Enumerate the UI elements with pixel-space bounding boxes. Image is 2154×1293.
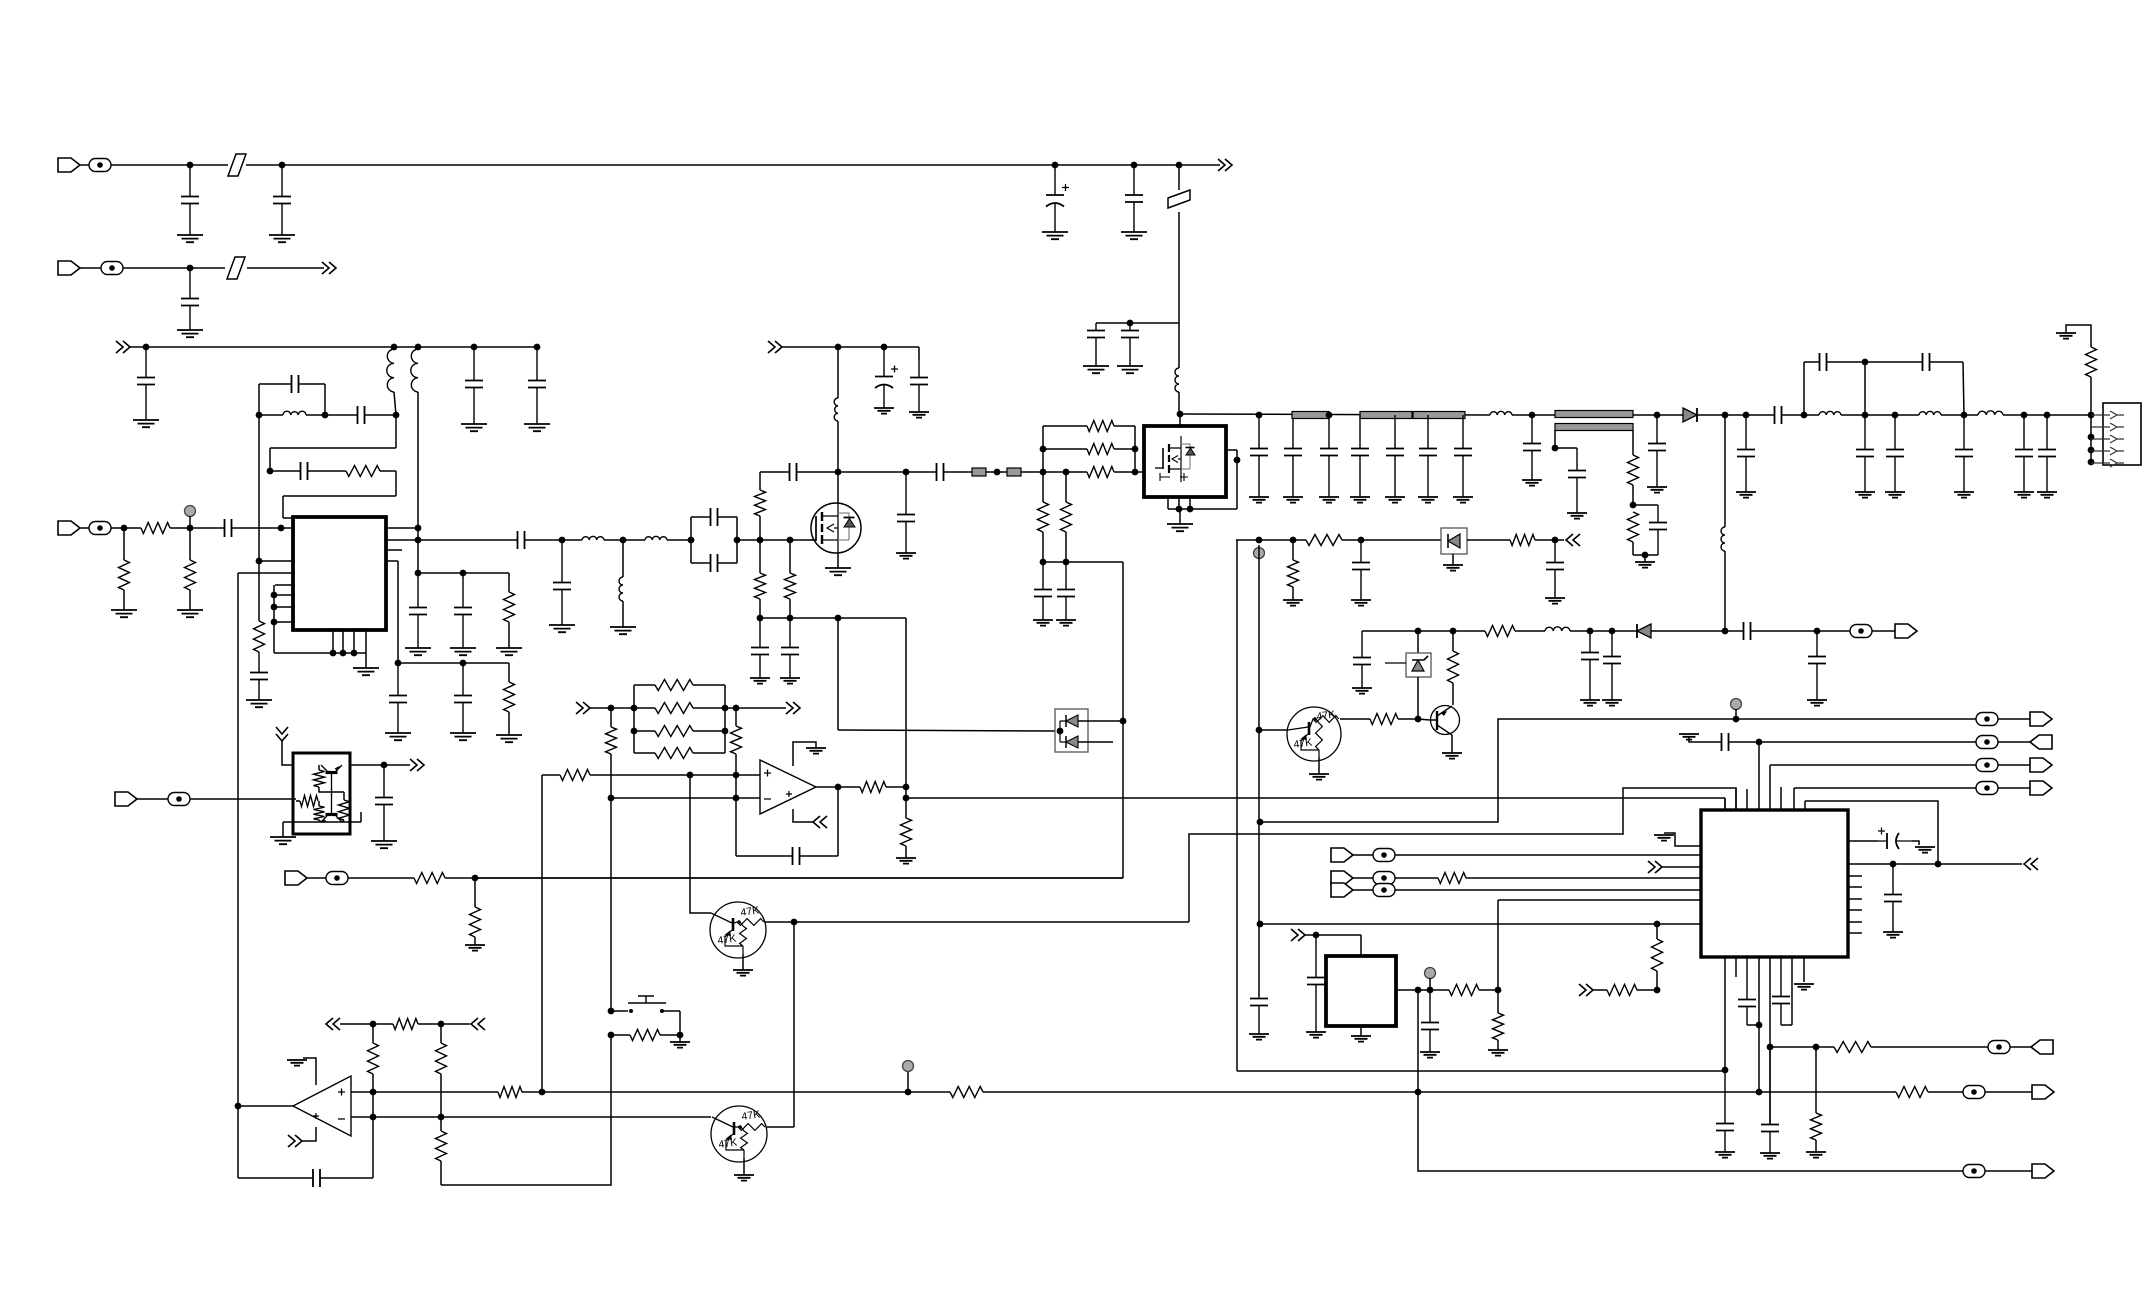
wire r45b: [1497, 1040, 1499, 1050]
node nr5: [1722, 412, 1729, 419]
ground G9: [461, 424, 487, 431]
wire pb gnd lead: [679, 1035, 681, 1042]
wire fb2 v2: [282, 496, 284, 518]
wire u3 t1: [1724, 798, 1726, 810]
ground GC36: [1319, 497, 1339, 503]
wire v4 stem: [907, 1072, 909, 1092]
node n3a: [121, 525, 128, 532]
ground G10: [524, 424, 550, 431]
wire r35b: [474, 937, 476, 945]
wire br1 l: [1803, 362, 1805, 415]
wire bridge right rail: [324, 384, 326, 415]
chevron arrow A16l: [2024, 858, 2038, 870]
resistor R53: [314, 806, 325, 820]
node nx2: [1290, 537, 1297, 544]
transistor Q6 (digital, 47K): [711, 1106, 767, 1162]
wire tp15w: [1998, 787, 2030, 789]
wire bus878: [445, 877, 1123, 879]
wire u3 b4: [1758, 957, 1760, 1092]
wire bridge left rail: [258, 384, 260, 415]
node ni5: [1495, 987, 1502, 994]
wire ladder line: [590, 707, 655, 709]
wire q5 gnd: [742, 954, 744, 970]
node ni3: [1415, 987, 1422, 994]
ground G83: [371, 841, 397, 848]
net tie TP13: [1976, 736, 1998, 749]
wire J2 wire: [123, 267, 225, 269]
wire lineB: [1260, 719, 1976, 822]
wire l7b: [622, 601, 624, 627]
ground GC40: [1453, 497, 1473, 503]
wire r16b: [1632, 485, 1634, 505]
wire r13r: [1114, 448, 1135, 450]
net tie TP6: [1963, 1086, 1985, 1099]
wire div bus: [760, 617, 906, 619]
ground G5: [177, 330, 203, 337]
capacitor C55: [1353, 658, 1371, 665]
wire J8c link: [1353, 889, 1373, 891]
wire rc par bot3: [1633, 554, 1658, 556]
wire y775: [542, 774, 560, 776]
net tie TP3: [89, 522, 111, 535]
wire bus347b: [782, 346, 919, 348]
node ny1: [1415, 628, 1422, 635]
ground G13: [177, 610, 203, 617]
node nb1071: [1722, 1067, 1729, 1074]
wire r6t: [508, 573, 510, 592]
node n1a: [187, 162, 194, 169]
wire J5 link: [307, 877, 326, 879]
node n1047b: [1813, 1044, 1820, 1051]
capacitor C23: [711, 554, 718, 572]
capacitor C57: [1581, 653, 1599, 660]
wire y775b: [590, 774, 760, 776]
chevron arrow A8r: [786, 702, 800, 714]
ground G59: [1602, 700, 1622, 706]
wire pin540r: [386, 539, 418, 541]
resistor R46: [1607, 985, 1637, 996]
wire v5 stem: [1429, 978, 1431, 990]
ground G6: [1083, 366, 1109, 373]
wire r30t: [735, 708, 737, 726]
node nt3: [1040, 559, 1047, 566]
capacitor C62: [1307, 978, 1325, 985]
node nl5: [631, 728, 638, 735]
wire r20t: [1292, 540, 1294, 560]
wire in4 wire: [190, 798, 296, 800]
capacitor C49: [2015, 450, 2033, 457]
ferrite bead FB2: [1168, 190, 1190, 208]
resistor R45: [1493, 1013, 1504, 1040]
ground G14: [353, 668, 379, 675]
node np4: [370, 1114, 377, 1121]
wire u2 gnd lead: [1179, 509, 1181, 524]
node n878: [472, 875, 479, 882]
wire u3 r841: [1848, 840, 1878, 842]
wire r28r: [693, 752, 725, 754]
wire zen stub: [1385, 662, 1406, 664]
wire J3 wireb: [170, 527, 219, 529]
wire x1418 low: [1418, 990, 1963, 1171]
net tie TP15: [1976, 782, 1998, 795]
ground G11: [246, 700, 272, 707]
ground G17: [496, 648, 522, 655]
wire t1s l: [1554, 430, 1556, 448]
resistor R21: [1510, 535, 1535, 546]
resistor R18: [2086, 347, 2097, 377]
resistor R16: [1628, 455, 1639, 485]
ground G26: [874, 408, 894, 414]
ground G4: [1121, 232, 1147, 239]
capacitor C43: [1568, 471, 1586, 478]
wire row2 out: [247, 267, 324, 269]
wire fbox t1: [691, 516, 705, 518]
wire bus878r: [475, 877, 1123, 879]
resistor R51: [314, 770, 325, 787]
wire J2 link: [80, 267, 101, 269]
resistor R19: [1306, 535, 1342, 546]
node V5 (test point): [1425, 968, 1436, 979]
wire r10b: [789, 599, 791, 618]
ground G70: [1306, 1032, 1326, 1038]
node nb1047: [1767, 1044, 1774, 1051]
wire rail414b: [1512, 414, 1683, 416]
capacitor C18: [389, 696, 407, 703]
resistor R23: [1448, 651, 1459, 683]
capacitor C48: [1955, 450, 1973, 457]
node np6: [539, 1089, 546, 1096]
wire tp12w: [1998, 718, 2030, 720]
wire l631c: [1570, 630, 1637, 632]
wire rail414d: [1787, 414, 1819, 416]
IC U3: [1701, 810, 1848, 957]
wire r9b: [759, 599, 761, 618]
wire u3 stub922: [1848, 921, 1862, 923]
wire u3 t6: [1780, 787, 1782, 810]
wire r12l: [1043, 425, 1087, 427]
wire bridge bottom3: [370, 414, 396, 416]
shielded inductor FL3: [1292, 412, 1329, 419]
wire y1092d: [1759, 1091, 1896, 1093]
wire r14t: [1042, 472, 1044, 502]
ground G29: [1033, 620, 1053, 626]
resistor R1: [346, 466, 380, 477]
node bp1d: [330, 650, 337, 657]
node ni6: [1654, 987, 1661, 994]
node np9: [1756, 1089, 1763, 1096]
wire br2 v: [1963, 362, 1964, 415]
node p595: [271, 592, 278, 599]
wire det540b: [1467, 539, 1510, 541]
ground G66: [465, 945, 485, 951]
wire r4 lead: [123, 590, 125, 610]
inductor L4: [283, 411, 306, 415]
resistor R42: [950, 1087, 983, 1098]
node ny5: [1722, 628, 1729, 635]
ground GC39: [1418, 497, 1438, 503]
wire r32 out: [886, 786, 906, 788]
wire x906 v: [905, 618, 907, 818]
ground G28: [825, 568, 851, 575]
ground G72: [1420, 1052, 1440, 1058]
inductor L13: [1721, 527, 1725, 551]
wire q4 out: [1340, 718, 1370, 720]
wire u2 b1: [1167, 497, 1169, 509]
chevron arrow A17d: [276, 727, 288, 741]
connector J7: [2032, 1164, 2054, 1178]
wire u3 stub899: [1848, 898, 1862, 900]
ground GC42: [1647, 487, 1667, 493]
node np8: [1415, 1089, 1422, 1096]
wire l631: [1362, 630, 1485, 632]
capacitor C38: [1386, 449, 1404, 456]
wire l631b: [1515, 630, 1545, 632]
wire tp7 out: [1985, 1170, 2032, 1172]
capacitor C65: [1722, 733, 1729, 751]
wire fb1 v: [395, 415, 397, 448]
wire r25l: [634, 684, 655, 686]
wire pin550r: [386, 549, 402, 551]
capacitor C25: [781, 648, 799, 655]
wire u3 b1: [1724, 957, 1726, 1070]
node nbr2: [322, 412, 329, 419]
wire t1s r: [1632, 430, 1634, 455]
node n2a: [187, 265, 194, 272]
polarized capacitor C66: [1878, 828, 1912, 850]
node nl7: [733, 772, 740, 779]
wire r14b: [1042, 532, 1044, 562]
resistor R54: [339, 800, 350, 820]
ground GC38: [1385, 497, 1405, 503]
wire bus347: [130, 346, 537, 348]
node nlb2: [1733, 716, 1740, 723]
capacitor C58: [1603, 657, 1621, 664]
node nd1: [835, 469, 842, 476]
wire row1 bus: [246, 164, 1220, 166]
node no4: [791, 919, 798, 926]
wire q3 e: [1451, 735, 1453, 753]
wire u5 top feed: [282, 741, 384, 765]
wire q6 out: [766, 1126, 794, 1128]
wire pb right: [679, 1011, 681, 1035]
node nj3: [2088, 459, 2095, 466]
wire r30b: [735, 754, 737, 856]
ground G15: [405, 648, 431, 655]
transistor Q1 (MOSFET): [811, 503, 861, 553]
shielded inductor FL1: [972, 468, 986, 476]
wire Q net 2: [1189, 788, 1736, 922]
wire pin1725: [1724, 798, 1726, 810]
node ny6: [1814, 628, 1821, 635]
wire fb2 h3: [380, 470, 396, 472]
wire r9t: [759, 540, 761, 573]
wire fbox b1: [691, 562, 705, 564]
ground G63: [806, 748, 826, 754]
connector J15: [115, 792, 137, 806]
resistor R44: [1449, 985, 1479, 996]
ground G22: [610, 627, 636, 634]
net tie TP11: [1988, 1041, 2010, 1054]
wire u3 b2: [1735, 957, 1737, 977]
pins P1-P5 (socket): [2091, 411, 2124, 419]
wire L3 tail: [417, 392, 419, 528]
capacitor C53: [1352, 563, 1370, 570]
node ndd2: [1120, 718, 1127, 725]
wire u2 b2: [1178, 497, 1180, 509]
wire u2 b3: [1189, 497, 1191, 509]
capacitor C35: [1284, 449, 1302, 456]
resistor R12: [1087, 421, 1114, 432]
ground G80: [1760, 1153, 1780, 1159]
node nl6: [722, 728, 729, 735]
zener D4 (in box): [1406, 653, 1431, 677]
node nk1: [460, 570, 467, 577]
wire r6b: [508, 622, 510, 648]
wire u3 b7: [1791, 957, 1793, 1025]
wire rail414: [1180, 414, 1490, 415]
wire L2 tail: [394, 392, 396, 415]
wire u5 mid: [319, 787, 331, 792]
wire y924: [1260, 923, 1701, 925]
capacitor C52: [1923, 353, 1930, 371]
wire x542: [541, 775, 543, 1092]
capacitor C40: [1454, 449, 1472, 456]
ground G78: [1883, 932, 1903, 938]
wire pin622: [274, 621, 293, 623]
ground G68: [287, 1060, 307, 1066]
capacitor C7: [1121, 331, 1139, 338]
node n3c: [278, 525, 285, 532]
inductor L3: [411, 349, 418, 392]
node np7: [905, 1089, 912, 1096]
polarized capacitor C29: [875, 376, 893, 378]
wire tp6 out: [1985, 1091, 2032, 1093]
node V4 (test point): [903, 1061, 914, 1072]
node nr12: [2044, 412, 2051, 419]
resistor R13: [1087, 444, 1114, 455]
net tie TP7: [1963, 1165, 1985, 1178]
wire bp1: [332, 630, 334, 653]
chevron arrow A11l: [471, 1018, 485, 1030]
transistor Q8: [321, 792, 342, 823]
shielded inductor FL2: [1007, 468, 1021, 476]
wire l631e: [1756, 630, 1851, 632]
wire fb2 h2: [313, 470, 346, 472]
wire r12r: [1114, 425, 1135, 427]
node nr10: [1961, 412, 1968, 419]
wire fb1 h: [270, 447, 396, 449]
node nc2: [620, 537, 627, 544]
wire v1 stem: [189, 516, 191, 528]
wire r53t: [318, 801, 320, 806]
wire fbox r1: [736, 517, 738, 563]
capacitor C16: [409, 608, 427, 615]
node n259: [256, 558, 263, 565]
capacitor C44: [1649, 523, 1667, 530]
ground GC41: [1522, 480, 1542, 486]
wire y798a: [611, 797, 760, 799]
node no1: [835, 784, 842, 791]
wire zen v1: [1417, 631, 1419, 653]
diode D1: [1683, 408, 1697, 422]
wire drv472c: [949, 471, 1087, 473]
node nu5: [381, 762, 388, 769]
capacitor C60: [793, 847, 800, 865]
wire bp3: [353, 630, 355, 653]
wire r20b: [1292, 587, 1294, 600]
resistor R22: [1485, 626, 1515, 637]
ground G73: [1488, 1050, 1508, 1056]
wire drv472d: [1114, 471, 1145, 473]
wire l562: [1043, 561, 1123, 563]
resistor R5: [185, 560, 196, 590]
node ny4: [1609, 628, 1616, 635]
inductor L12: [1978, 411, 2003, 415]
node nbr4: [1862, 359, 1869, 366]
resistor R8: [755, 490, 766, 516]
wire x241 low: [237, 1106, 239, 1178]
net tie TP4: [1850, 625, 1872, 638]
net tie TP2: [101, 262, 123, 275]
connector J8b: [1331, 871, 1353, 885]
node n418b: [415, 537, 422, 544]
wire l742: [1734, 741, 1976, 743]
wire u3 b5: [1769, 957, 1771, 1124]
wire l801: [1805, 801, 1938, 864]
IC U5: [293, 753, 350, 834]
wire gnd lead: [365, 653, 367, 668]
wire ladder lineb: [693, 707, 786, 709]
wire rail414f: [1941, 414, 1978, 416]
wire q4 gnd: [1318, 757, 1320, 774]
chevron arrow A9l: [813, 816, 827, 828]
ground G79: [1715, 1152, 1735, 1158]
wire fb int 3: [736, 855, 770, 857]
diode D2 (in box): [1441, 528, 1467, 554]
wire bank1: [418, 572, 509, 574]
node no5: [235, 1103, 242, 1110]
node nr8: [1862, 412, 1869, 419]
wire q5 base wire: [690, 775, 711, 913]
node no3: [903, 795, 910, 802]
node nj1: [2088, 434, 2095, 441]
wire l631d: [1651, 630, 1738, 632]
ground G1: [177, 235, 203, 242]
node nb4: [471, 344, 478, 351]
wire fb2 h5: [283, 517, 293, 519]
capacitor C64: [1250, 999, 1268, 1006]
ground G61: [1442, 753, 1462, 759]
node nr2: [1326, 412, 1333, 419]
capacitor C50: [2038, 450, 2056, 457]
ground G77: [1915, 847, 1935, 853]
capacitor C31: [1034, 590, 1052, 597]
wire x1725a: [1724, 415, 1726, 527]
ground G60: [1807, 700, 1827, 706]
chevron arrow A10l: [326, 1018, 340, 1030]
wire r44 out: [1479, 989, 1498, 991]
wire in867: [1662, 866, 1701, 868]
node nr3: [1529, 412, 1536, 419]
node nb5: [534, 344, 541, 351]
node ng1: [757, 537, 764, 544]
node ndd: [1057, 728, 1064, 735]
IC U1: [293, 517, 386, 630]
wire J15 link: [137, 798, 168, 800]
dual diode D5: [1055, 709, 1088, 752]
ground G19: [450, 733, 476, 740]
node nts: [1552, 445, 1559, 452]
